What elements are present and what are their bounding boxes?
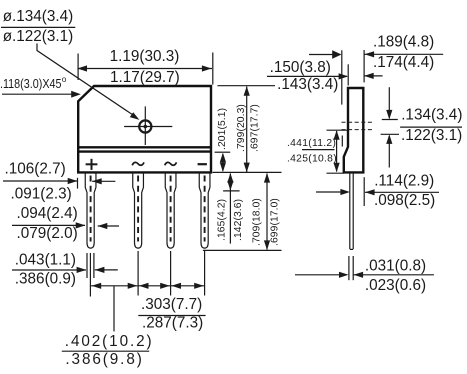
pin pitch dimension line <box>91 285 205 287</box>
extension line left of 1.19 <box>77 54 79 81</box>
terminal symbol minus <box>198 163 207 165</box>
svg-text:.402(10.2): .402(10.2) <box>65 333 154 350</box>
extension line pin tip level to right <box>203 249 282 251</box>
svg-text:.303(7.7): .303(7.7) <box>141 296 202 313</box>
vertical dim line .134 bottom part <box>388 136 390 168</box>
leader arrowhead at hole <box>130 112 140 120</box>
svg-text:ø.122(3.1): ø.122(3.1) <box>3 28 74 45</box>
arrow at pin1 pointing left <box>92 283 102 289</box>
extension line strip bottom to right <box>213 171 282 173</box>
mounting hole ring <box>139 120 151 132</box>
dimension line .441 <box>336 131 338 172</box>
svg-text:.386(0.9): .386(0.9) <box>15 271 76 288</box>
svg-text:.098(2.5): .098(2.5) <box>374 192 435 209</box>
svg-text:.150(3.8): .150(3.8) <box>270 59 331 76</box>
fraction bar .094 with arrow <box>12 224 85 226</box>
side view pin left edge <box>349 172 351 249</box>
pin3 extension line below tip <box>170 251 172 296</box>
pin1 center extension line <box>89 253 91 297</box>
svg-text:.142(3.6): .142(3.6) <box>233 199 244 241</box>
side view pin right edge <box>352 172 354 249</box>
pin thickness extension right <box>352 256 354 280</box>
svg-text:.697(17.7): .697(17.7) <box>250 104 261 152</box>
arrow left 1.19 <box>77 65 87 71</box>
extension tick hole centerline <box>327 129 348 131</box>
pin4 extension line below tip <box>204 251 206 296</box>
arrowhead .043 pointing right <box>77 267 87 273</box>
fraction bar side .134 <box>400 126 462 128</box>
extension line at 364.2 <box>363 177 365 206</box>
dimension .031 arrows <box>295 274 340 276</box>
front view body outline <box>78 86 211 172</box>
svg-text:.031(0.8): .031(0.8) <box>365 257 426 274</box>
svg-text:.122(3.1): .122(3.1) <box>401 127 462 144</box>
vertical dim line .134 top part <box>388 87 390 118</box>
opposing arrow .189 from left <box>309 54 334 56</box>
chamfer arrow line <box>2 93 73 95</box>
terminal symbol plus <box>86 159 98 170</box>
side hole tick upper <box>382 119 398 121</box>
opposing arrow .106 from right <box>92 180 115 182</box>
extension tick body bottom left <box>327 172 344 174</box>
arrow before pin4 <box>194 283 204 289</box>
fraction bar .402 <box>62 350 149 352</box>
dimension line 1.19 <box>77 68 212 70</box>
svg-text:.425(10.8): .425(10.8) <box>287 154 337 165</box>
svg-text:.079(2.0): .079(2.0) <box>17 225 78 242</box>
extension line body top to right <box>217 85 275 87</box>
hidden hole dashed line upper <box>342 121 373 123</box>
svg-text:ø.134(3.4): ø.134(3.4) <box>3 8 74 25</box>
mounting hole center dot <box>144 125 148 129</box>
hole crosshair vertical <box>144 106 146 145</box>
fraction bar .441 <box>302 149 335 151</box>
svg-text:.174(4.4): .174(4.4) <box>373 54 434 71</box>
extension line strip left edge <box>77 178 79 189</box>
svg-text:.799(20.3): .799(20.3) <box>236 104 247 152</box>
svg-text:.201(5.1): .201(5.1) <box>217 108 228 150</box>
svg-text:.709(18.0): .709(18.0) <box>252 198 263 246</box>
svg-text:.114(2.9): .114(2.9) <box>374 172 434 189</box>
pin1 thickness extension line right <box>93 253 95 278</box>
extension line at 364.1 top <box>363 50 365 82</box>
svg-text:.134(3.4): .134(3.4) <box>401 106 462 123</box>
svg-text:.699(17.0): .699(17.0) <box>270 198 281 246</box>
opposing arrow .043 from right <box>95 269 118 271</box>
arrow after pin2 <box>139 283 149 289</box>
svg-text:1.17(29.7): 1.17(29.7) <box>110 69 180 86</box>
band line lower <box>78 150 211 152</box>
pin1 thickness extension line left <box>86 253 88 278</box>
side view body outline <box>344 88 364 172</box>
svg-text:1.19(30.3): 1.19(30.3) <box>110 48 180 65</box>
terminal symbol tilde 1 <box>132 162 144 165</box>
svg-text:.165(4.2): .165(4.2) <box>217 199 228 241</box>
fraction bar .150 with arrow <box>267 75 347 77</box>
svg-text:.118(3.0)X45: .118(3.0)X45 <box>0 77 62 91</box>
fraction bar .043 with arrow <box>12 269 86 271</box>
fraction bar hole diameter <box>1 26 75 28</box>
leader for .402 label <box>113 286 115 332</box>
stub line left of slant <box>341 136 343 147</box>
pin 2 dashed centerline <box>137 176 139 242</box>
fraction bar .106 with arrow <box>3 180 77 182</box>
svg-text:.441(11.2): .441(11.2) <box>287 138 336 149</box>
dimension .201 double arrow <box>222 154 224 171</box>
pin 4 outline <box>199 173 210 249</box>
svg-text:.106(2.7): .106(2.7) <box>5 161 66 178</box>
side view pin bottom <box>350 248 353 250</box>
arrow before pin3 <box>160 283 170 289</box>
arrow .174 from right <box>364 75 383 77</box>
extension line at 341.8 <box>341 50 343 104</box>
fraction bar .189 with arrow <box>365 53 444 55</box>
chamfer arrowhead <box>71 91 81 98</box>
dimension .114 arrows <box>316 191 341 193</box>
extension line at 348.2 <box>347 64 349 85</box>
terminal symbol tilde 2 <box>165 162 177 165</box>
pin 3 outline <box>165 173 176 249</box>
dimension line .799/.697 <box>246 87 248 173</box>
arrowhead .094 pointing right <box>76 222 86 228</box>
arrowhead .106 pointing right <box>68 178 78 184</box>
leader line from hole label to hole <box>37 44 137 118</box>
svg-text:.386(9.8): .386(9.8) <box>65 351 143 368</box>
pin 3 dashed centerline <box>170 176 172 242</box>
pin2 extension line below tip <box>137 251 139 296</box>
dimension line .709/.699 <box>266 174 268 250</box>
pin 1 dashed centerline <box>90 176 92 242</box>
svg-text:.143(3.4): .143(3.4) <box>277 76 338 93</box>
pin 1 outline <box>85 173 96 249</box>
pin 4 dashed centerline <box>204 176 206 242</box>
side hole tick lower <box>381 133 399 135</box>
svg-text:.091(2.3): .091(2.3) <box>11 186 72 203</box>
opposing arrow .094 from right <box>98 225 119 227</box>
extension line band bottom to right <box>215 151 231 153</box>
fraction bar .303 <box>138 315 205 317</box>
extension line right of 1.19 <box>212 53 214 85</box>
band line upper <box>78 146 211 148</box>
svg-text:.287(7.3): .287(7.3) <box>142 314 203 331</box>
hole crosshair horizontal <box>124 126 172 128</box>
dimension .165/.142 arrows and separator <box>229 174 231 244</box>
pin thickness extension left <box>348 256 350 280</box>
arrow before pin2 <box>128 283 138 289</box>
arrow after pin3 <box>171 283 181 289</box>
arrow right 1.19 <box>202 65 212 71</box>
extension line taper level <box>223 190 240 192</box>
svg-text:.043(1.1): .043(1.1) <box>15 252 76 269</box>
pin 2 outline <box>133 173 144 249</box>
hidden hole dashed line lower <box>342 129 373 131</box>
svg-text:.023(0.6): .023(0.6) <box>365 277 426 294</box>
svg-text:.094(2.4): .094(2.4) <box>17 205 78 222</box>
svg-text:.189(4.8): .189(4.8) <box>373 34 434 51</box>
svg-text:o: o <box>62 75 67 84</box>
